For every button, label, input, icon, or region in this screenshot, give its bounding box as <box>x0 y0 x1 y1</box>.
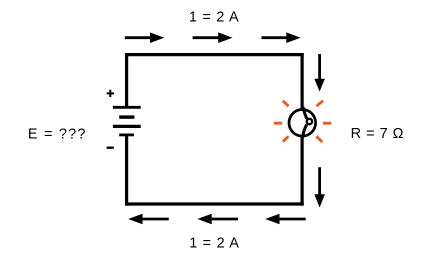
current arrow bottom 2 (left) <box>197 214 238 225</box>
wire bottom edge <box>125 202 304 205</box>
wire right edge lower (lamp bottom to bottom-right corner) <box>301 136 304 205</box>
current arrow bottom 3 (left) <box>265 214 306 225</box>
battery + polarity sign <box>107 90 114 97</box>
wire left edge upper (top-left corner to battery + plate) <box>125 53 128 107</box>
lamp R1 (circle with filament) <box>289 107 316 138</box>
lamp glow rays <box>274 101 331 142</box>
current arrow top 3 <box>262 32 301 43</box>
current arrow top 1 <box>125 32 164 43</box>
svg-text:1 = 2 A: 1 = 2 A <box>189 235 239 251</box>
wire left edge lower (battery - plate to bottom-left corner) <box>125 135 128 206</box>
wire top edge <box>125 53 304 56</box>
current arrow bottom 1 (left) <box>128 214 169 225</box>
current arrow right 1 (down) <box>314 54 325 92</box>
svg-text:1 = 2 A: 1 = 2 A <box>189 9 239 25</box>
wire right edge upper (top-right corner to lamp top) <box>301 53 304 110</box>
svg-text:R = 7 Ω: R = 7 Ω <box>351 126 404 142</box>
current arrow top 2 <box>193 32 233 43</box>
current arrow right 2 (down) <box>314 167 325 207</box>
svg-text:E = ???: E = ??? <box>28 126 87 142</box>
battery - polarity sign <box>107 147 114 149</box>
battery E1 plates <box>113 107 141 135</box>
